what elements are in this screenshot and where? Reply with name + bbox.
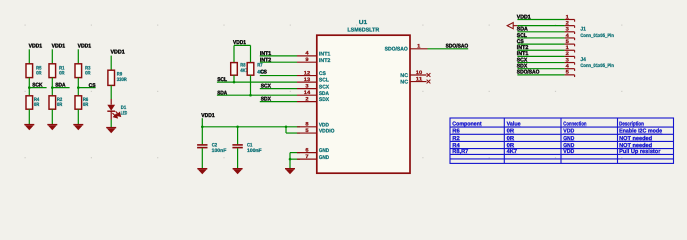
svg-text:1: 1 (566, 45, 569, 51)
wire (110, 85, 112, 99)
resistor R6 (75, 96, 82, 109)
svg-text:0R: 0R (34, 102, 40, 108)
junction (236, 126, 239, 129)
svg-text:SCK: SCK (32, 83, 42, 89)
svg-text:10: 10 (416, 70, 423, 76)
svg-text:R2: R2 (452, 136, 460, 142)
svg-text:3: 3 (566, 57, 569, 63)
svg-text:INT2: INT2 (319, 58, 331, 64)
svg-text:4: 4 (305, 51, 308, 57)
junction R8/SCL (233, 81, 236, 84)
resistor R3 (75, 64, 82, 78)
wire (517, 31, 564, 33)
svg-text:CS: CS (260, 70, 267, 76)
wire (51, 49, 53, 64)
svg-text:SDO/SAO: SDO/SAO (446, 43, 469, 49)
connector pin 5 (565, 74, 575, 76)
pin 1 SDO/SAO (410, 48, 428, 50)
junction (285, 126, 288, 129)
wire (28, 78, 30, 96)
junction (289, 158, 292, 161)
connector pin 3 (565, 31, 575, 33)
ground (73, 125, 83, 131)
svg-text:4: 4 (566, 33, 569, 39)
resistor R8 (231, 63, 238, 76)
wire (517, 74, 564, 76)
wire (237, 148, 239, 168)
hierarchical label arrow (pin 2) (507, 23, 517, 29)
svg-text:100nF: 100nF (212, 148, 227, 154)
svg-text:GND: GND (563, 136, 574, 142)
svg-text:0R: 0R (507, 129, 514, 135)
svg-text:CS: CS (89, 83, 96, 89)
svg-text:INT1: INT1 (319, 52, 331, 58)
wire SDA (217, 94, 297, 96)
wire (517, 37, 564, 39)
wire (517, 68, 564, 70)
ground (197, 169, 207, 175)
svg-text:2: 2 (566, 20, 569, 26)
junction (77, 86, 80, 89)
svg-text:2: 2 (305, 96, 308, 102)
svg-text:SDA: SDA (319, 91, 329, 97)
svg-text:GND: GND (563, 143, 574, 149)
svg-text:VDD: VDD (563, 149, 574, 155)
pin 9 INT2 (297, 61, 317, 63)
wire (517, 19, 564, 21)
wire (517, 25, 564, 27)
svg-text:13: 13 (304, 77, 311, 83)
svg-text:R7: R7 (257, 63, 263, 69)
svg-text:VDD1: VDD1 (52, 44, 66, 50)
svg-text:VDD1: VDD1 (111, 50, 125, 56)
resistor R9 (108, 70, 115, 85)
ground (24, 125, 34, 131)
ground (233, 169, 243, 175)
svg-text:5: 5 (566, 39, 569, 45)
svg-text:5: 5 (305, 128, 308, 134)
svg-text:0R: 0R (59, 71, 65, 77)
capacitor C2 100nF (197, 144, 207, 146)
wire (517, 49, 564, 51)
wire SCX (260, 88, 297, 90)
wire (517, 62, 564, 64)
svg-text:1: 1 (417, 43, 420, 49)
ground (IC) (285, 169, 295, 175)
svg-text:J4: J4 (580, 57, 586, 63)
svg-text:0R: 0R (36, 71, 42, 77)
wire (289, 153, 291, 169)
wire (77, 78, 79, 96)
svg-text:R6: R6 (452, 129, 460, 135)
svg-text:LED: LED (121, 111, 128, 117)
svg-text:GND: GND (319, 155, 329, 161)
connector pin 5 (565, 43, 575, 45)
svg-text:4K7: 4K7 (507, 149, 517, 155)
svg-text:NOT needed: NOT needed (619, 142, 653, 149)
resistor R1 (49, 64, 56, 78)
wire (28, 49, 30, 64)
LED cathode stub (110, 111, 112, 119)
wire (237, 127, 239, 145)
junction (51, 86, 54, 89)
pin 5 VDDIO (297, 132, 317, 134)
svg-text:5: 5 (566, 70, 569, 76)
svg-text:1: 1 (566, 14, 569, 20)
svg-text:11: 11 (416, 76, 423, 82)
wire INT2 (260, 61, 297, 63)
svg-text:7: 7 (305, 154, 308, 160)
wire SDX (260, 101, 297, 103)
svg-text:Description: Description (619, 121, 644, 128)
wire stub net SDA (52, 87, 69, 89)
pin 6 GND (297, 152, 317, 154)
wire (201, 118, 203, 127)
ground (106, 128, 116, 134)
svg-text:SDX: SDX (319, 97, 330, 103)
connector pin 1 (565, 19, 575, 21)
wire (110, 120, 112, 128)
pin 4 INT1 (297, 55, 317, 57)
svg-text:14: 14 (304, 90, 311, 96)
svg-text:0R: 0R (85, 71, 91, 77)
svg-text:12: 12 (304, 70, 311, 76)
wire (517, 55, 564, 57)
svg-text:4: 4 (566, 64, 569, 70)
ground (47, 125, 57, 131)
svg-text:SCX: SCX (319, 84, 330, 90)
connector pin 4 (565, 68, 575, 70)
svg-text:VDD1: VDD1 (78, 44, 92, 50)
svg-text:SDO/SAO: SDO/SAO (385, 47, 408, 53)
svg-text:R8,R7: R8,R7 (452, 149, 468, 155)
capacitor C1 100nF (232, 144, 242, 146)
svg-text:LSM6DSLTR: LSM6DSLTR (347, 27, 379, 33)
svg-text:Value: Value (507, 121, 521, 128)
svg-text:NC: NC (400, 79, 408, 85)
svg-text:U1: U1 (359, 20, 368, 26)
pin 7 GND (297, 158, 317, 160)
svg-text:330R: 330R (117, 77, 127, 83)
connector pin 1 (565, 49, 575, 51)
wire INT1 (260, 55, 297, 57)
wire R8 to SCL (233, 75, 235, 82)
svg-text:6: 6 (305, 147, 308, 153)
pin 11 NC (410, 81, 427, 83)
wire (77, 49, 79, 64)
connector pin 2 (565, 55, 575, 57)
svg-text:VDD1: VDD1 (29, 44, 42, 50)
wire stub net CS (78, 87, 95, 89)
svg-text:Enable I2C mode: Enable I2C mode (619, 128, 662, 135)
svg-text:0R: 0R (507, 143, 514, 149)
svg-text:3: 3 (305, 83, 308, 89)
resistor R5 (26, 64, 33, 78)
pin 3 SCX (297, 88, 317, 90)
connector pin 4 (565, 37, 575, 39)
connector pin 2 (565, 25, 575, 27)
svg-text:J1: J1 (580, 26, 586, 32)
svg-text:CS: CS (319, 71, 326, 77)
svg-text:3: 3 (566, 27, 569, 33)
LED D1 emission arrows (112, 111, 120, 118)
wire R7 to SDA (250, 75, 252, 95)
wire (77, 109, 79, 124)
svg-text:Conn_01x05_Pin: Conn_01x05_Pin (580, 63, 614, 69)
resistor R4 (26, 96, 33, 109)
pin 12 CS (297, 75, 317, 77)
junction (201, 126, 204, 129)
wire (51, 78, 53, 96)
junction R7/SDA (249, 94, 252, 97)
svg-text:GND: GND (319, 148, 329, 154)
svg-text:0R: 0R (507, 136, 514, 142)
junction (28, 86, 31, 89)
svg-text:2: 2 (566, 51, 569, 57)
svg-text:NOT needed: NOT needed (619, 135, 653, 142)
svg-text:NC: NC (400, 73, 408, 79)
svg-text:VDD: VDD (319, 122, 329, 128)
svg-text:Component: Component (452, 122, 481, 128)
wire VDD rail (202, 126, 300, 128)
pin 14 SDA (297, 94, 317, 96)
wire to VDDIO (285, 127, 287, 133)
wire SCL (217, 81, 297, 83)
svg-text:0R: 0R (83, 102, 89, 108)
svg-text:Pull Up resistor: Pull Up resistor (619, 148, 661, 155)
svg-text:SDA: SDA (55, 83, 65, 89)
op-amp/IC U1 LSM6DSLTR body (317, 35, 410, 173)
wire (234, 44, 251, 46)
wire CS (260, 75, 297, 77)
svg-text:9: 9 (305, 57, 308, 63)
svg-text:0R: 0R (57, 102, 63, 108)
svg-text:Conn_01x05_Pin: Conn_01x05_Pin (580, 33, 614, 39)
pin 2 SDX (297, 101, 317, 103)
wire (201, 148, 203, 168)
wire (51, 109, 53, 124)
wire (28, 109, 30, 124)
pin 10 NC (410, 74, 427, 76)
svg-text:SCL: SCL (319, 78, 330, 84)
svg-text:VDD: VDD (563, 129, 574, 135)
connector pin 3 (565, 62, 575, 64)
pin 8 VDD (297, 126, 317, 128)
wire SDO/SAO (428, 48, 469, 50)
svg-text:8: 8 (305, 122, 308, 128)
svg-text:VDDIO: VDDIO (319, 129, 335, 135)
LED D1 symbol (107, 105, 115, 111)
resistor R2 (49, 96, 56, 109)
notes table (450, 118, 674, 163)
svg-text:VDD1: VDD1 (201, 113, 214, 119)
wire stub net SCK (29, 87, 46, 89)
svg-text:R4: R4 (452, 143, 460, 149)
svg-text:Connection: Connection (563, 121, 587, 128)
wire GND pin7 (290, 158, 300, 160)
LED D1 anode stub (110, 99, 112, 105)
resistor R7 (247, 63, 254, 76)
wire (110, 56, 112, 71)
wire (250, 45, 252, 62)
wire (233, 45, 235, 62)
svg-text:100nF: 100nF (247, 148, 262, 154)
wire (517, 43, 564, 45)
wire (201, 127, 203, 145)
wire VDDIO (286, 132, 300, 134)
pin 13 SCL (297, 81, 317, 83)
wire GND pin6 (290, 152, 300, 154)
